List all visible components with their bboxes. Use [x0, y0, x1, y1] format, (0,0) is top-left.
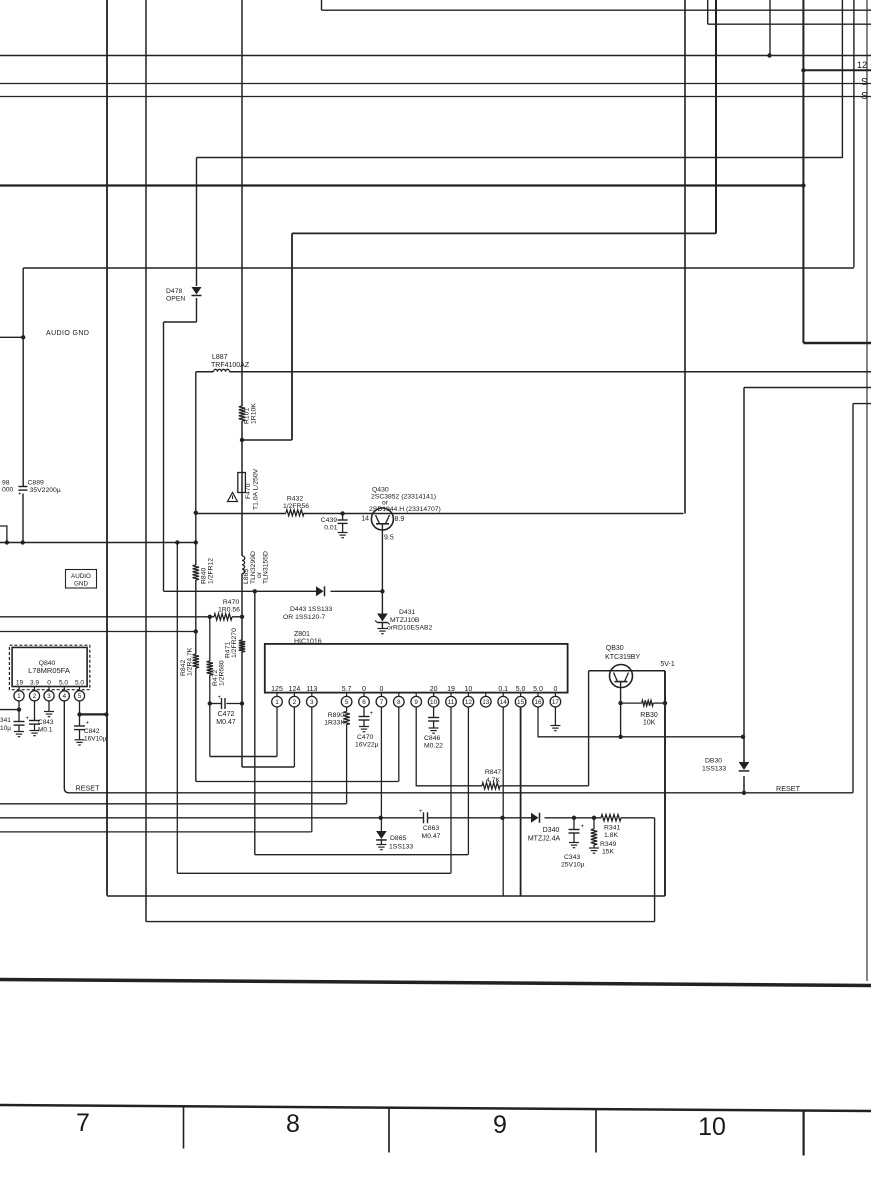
tick mark 4: [802, 1110, 804, 1156]
wire C863/D340 line y=817.8: [0, 817, 424, 819]
wire vertical x=177 to pin11 wire: [176, 543, 178, 874]
capacitor C842 with ground: [79, 714, 81, 726]
wire RB30 link y=703.3: [621, 702, 642, 704]
wire Q840 pin1 link y=709.6: [0, 709, 19, 711]
capacitor C863: [423, 812, 425, 823]
svg-text:S: S: [861, 77, 868, 88]
svg-text:0: 0: [362, 686, 366, 693]
svg-text:8: 8: [397, 699, 401, 706]
svg-text:0: 0: [47, 680, 51, 687]
wire vertical Q830 base riser x=588.6: [588, 671, 590, 786]
svg-text:R470: R470: [223, 599, 239, 606]
IC Z801 HIC1016 box: [265, 644, 568, 693]
wire horizontal L887 line y=371.8: [196, 371, 214, 373]
wire vertical box edge x=292: [291, 233, 293, 440]
wire horizontal thick y=343: [803, 342, 871, 344]
wire Q840 pin5 link y=714.4: [80, 713, 107, 715]
wire vertical x=744 DB30 branch: [743, 388, 745, 763]
svg-text:MTZJ2.4A: MTZJ2.4A: [528, 836, 561, 843]
wire RESET line y=792.8: [64, 701, 853, 793]
svg-text:Z801: Z801: [294, 631, 310, 638]
svg-text:1SS133: 1SS133: [389, 844, 413, 851]
svg-text:9: 9: [414, 699, 418, 706]
wire vertical D478 branch x=196.5: [196, 158, 198, 287]
wire vertical stub x=707.7: [707, 0, 709, 24]
svg-text:5.0: 5.0: [75, 680, 84, 687]
wire pin11 drop: [450, 707, 452, 873]
svg-text:+: +: [370, 711, 374, 717]
svg-text:15: 15: [517, 699, 525, 706]
svg-text:RESET: RESET: [776, 784, 801, 793]
svg-text:M0.47: M0.47: [422, 833, 441, 840]
diode D478 (OPEN): [192, 287, 202, 295]
wire pin5 line y=803.8: [0, 803, 346, 805]
svg-text:+: +: [581, 824, 585, 830]
wire horizontal 12V line y=70: [803, 69, 871, 71]
capacitor C470 with ground on pin6: [363, 707, 365, 717]
svg-text:QB30: QB30: [606, 645, 624, 652]
resistor R470: [214, 614, 232, 620]
svg-text:R341: R341: [604, 825, 620, 832]
svg-text:R349: R349: [600, 841, 616, 848]
wire vertical x=255 to pin12 wire: [254, 591, 256, 854]
svg-text:113: 113: [306, 686, 317, 693]
svg-text:8: 8: [286, 1110, 300, 1138]
svg-text:14: 14: [500, 699, 508, 706]
svg-text:C846: C846: [424, 735, 440, 742]
wire D443 line y=591.3: [164, 590, 317, 592]
svg-text:10: 10: [698, 1113, 726, 1141]
wire bottom line y=921.6: [146, 921, 655, 923]
svg-text:4: 4: [63, 693, 67, 700]
svg-text:HIC1016: HIC1016: [294, 639, 322, 646]
resistor R101: [239, 406, 245, 421]
svg-text:7: 7: [380, 699, 384, 706]
svg-text:M0.47: M0.47: [216, 719, 236, 726]
svg-text:TRF4100AZ: TRF4100AZ: [211, 362, 250, 369]
wire pin11 line y=873.3: [177, 872, 451, 874]
wire vertical x=163.5 D443 feed: [163, 322, 165, 591]
diode D340: [531, 813, 539, 823]
svg-text:98: 98: [2, 480, 10, 487]
wire pin12 line y=854.7: [255, 854, 468, 856]
capacitor C846 with ground on pin10: [433, 707, 435, 718]
warning triangle: [228, 493, 238, 502]
wire pin3 drop: [311, 707, 313, 832]
capacitor C889: [18, 486, 27, 488]
resistor R847: [482, 783, 500, 789]
wire Q830 base-collector line y=670.8: [589, 670, 665, 672]
wire vertical F470/L865 branch x=242: [241, 0, 243, 406]
svg-text:OPEN: OPEN: [166, 296, 185, 303]
svg-text:1R0.56: 1R0.56: [218, 607, 240, 614]
svg-text:L865: L865: [243, 569, 250, 584]
svg-text:0: 0: [553, 686, 557, 693]
svg-text:5: 5: [78, 693, 82, 700]
svg-text:3: 3: [310, 699, 314, 706]
wire R470 line y=616.8: [0, 616, 214, 618]
svg-text:L887: L887: [212, 354, 228, 361]
wire horizontal y=96.5: [0, 96, 871, 98]
svg-text:F470: F470: [245, 483, 252, 499]
svg-text:+: +: [218, 695, 222, 701]
resistor RB30: [642, 700, 654, 706]
diode D443: [316, 586, 324, 596]
wire pin8 drop: [398, 707, 400, 782]
svg-text:OR 1SS120-7: OR 1SS120-7: [283, 614, 326, 621]
svg-text:4.7K: 4.7K: [486, 777, 500, 784]
resistor R472: [207, 661, 213, 675]
wire horizontal box top y=233.4: [292, 232, 716, 234]
svg-text:R101: R101: [244, 408, 251, 424]
wire pin5 drop with resistor R890: [346, 707, 348, 712]
wire vertical x=842: [841, 0, 843, 158]
wire horizontal y=55: [0, 55, 871, 57]
wire horizontal y=268: [23, 267, 854, 269]
svg-text:10K: 10K: [643, 720, 656, 727]
wire Q830 emitter drop x=621: [620, 682, 622, 737]
svg-text:M0.1: M0.1: [38, 727, 53, 734]
wire vertical x=853 lower to RESET: [852, 404, 854, 793]
wire Q840 pin5 drop: [79, 701, 81, 715]
svg-text:1.8K: 1.8K: [604, 832, 618, 839]
wire horizontal y=157.5: [197, 157, 843, 159]
svg-text:AUDIO: AUDIO: [71, 573, 91, 580]
svg-text:341: 341: [0, 717, 11, 724]
svg-text:+: +: [18, 492, 22, 498]
capacitor C841 with ground on Q840 pin1: [18, 701, 20, 722]
svg-text:5.0: 5.0: [533, 686, 543, 693]
wire vertical bus left-1: [106, 0, 108, 896]
svg-text:S: S: [861, 91, 868, 102]
svg-text:L78MR05FA: L78MR05FA: [28, 666, 70, 675]
svg-text:C863: C863: [423, 825, 439, 832]
svg-text:0.01: 0.01: [324, 525, 337, 532]
svg-text:DB30: DB30: [705, 758, 722, 765]
transistor Q830: [610, 665, 633, 688]
svg-text:0: 0: [379, 686, 383, 693]
svg-text:2: 2: [33, 693, 37, 700]
svg-text:C439: C439: [321, 517, 337, 524]
svg-text:12: 12: [465, 699, 473, 706]
wire vertical x=196 L887 branch down to pin8 wire: [195, 372, 197, 565]
wire C472 link y=703.5: [210, 703, 222, 705]
wire pin2 link y=767: [242, 766, 294, 768]
svg-text:C842: C842: [84, 728, 100, 735]
wire Q430 collector drop x=383: [381, 524, 383, 592]
svg-text:RB30: RB30: [640, 712, 658, 719]
svg-text:13: 13: [482, 699, 490, 706]
svg-text:5.7: 5.7: [342, 686, 352, 693]
wire horizontal C889 line y=542.5: [0, 542, 196, 544]
wire vertical Q430 emitter riser x=685: [684, 0, 686, 514]
svg-text:19: 19: [16, 680, 24, 687]
svg-text:M0.22: M0.22: [424, 743, 443, 750]
tick mark 1: [183, 1106, 185, 1149]
svg-text:19: 19: [447, 686, 455, 693]
wire vertical loop x=654.6: [654, 818, 656, 922]
svg-text:C889: C889: [28, 480, 44, 487]
wire right page edge x=867: [866, 0, 868, 981]
svg-text:2SD1944.H (23314707): 2SD1944.H (23314707): [369, 506, 441, 513]
title block border line: [0, 1105, 871, 1111]
svg-text:D443 1SS133: D443 1SS133: [290, 606, 333, 613]
svg-text:1/2FR12: 1/2FR12: [208, 558, 215, 584]
svg-text:7: 7: [76, 1109, 90, 1137]
wire horizontal thick y=185.5: [0, 184, 803, 186]
svg-text:10: 10: [465, 686, 473, 693]
svg-text:D865: D865: [390, 835, 406, 842]
wire vertical C889 branch x=22.5: [22, 268, 24, 486]
svg-text:+: +: [86, 721, 90, 727]
svg-text:124: 124: [289, 686, 301, 693]
resistor R471: [239, 640, 245, 652]
svg-text:R847: R847: [485, 769, 501, 776]
wire pin16 drop: [537, 707, 539, 737]
svg-text:9.5: 9.5: [384, 535, 394, 542]
wire D478 branch corner y=322: [164, 321, 197, 323]
svg-text:1: 1: [17, 693, 21, 700]
wire pin17 drop with ground: [554, 707, 556, 726]
svg-text:1R10K: 1R10K: [251, 403, 258, 424]
svg-text:125: 125: [271, 686, 283, 693]
resistor R341: [601, 815, 621, 821]
ground on Q840 pin3: [48, 701, 50, 712]
diode D865 with ground: [376, 831, 387, 839]
wire horizontal stub y=337: [0, 336, 23, 338]
svg-text:12: 12: [857, 60, 867, 70]
tick mark 3: [595, 1109, 597, 1153]
wire vertical stub x=321 to top: [321, 0, 323, 10]
svg-text:1/2R680: 1/2R680: [219, 660, 226, 686]
svg-text:9: 9: [493, 1111, 507, 1139]
wire horizontal y=10: [322, 9, 871, 11]
svg-text:5.0: 5.0: [516, 686, 526, 693]
svg-text:TLN3299D: TLN3299D: [250, 551, 257, 584]
svg-text:5.0: 5.0: [59, 680, 68, 687]
svg-text:GND: GND: [74, 581, 88, 588]
wire pin8 link y=781.5: [196, 781, 399, 783]
resistor R432: [286, 510, 304, 516]
wire pin15 drop: [520, 707, 522, 896]
svg-text:16V10µ: 16V10µ: [84, 736, 107, 743]
svg-text:2SC3852 (23314141): 2SC3852 (23314141): [371, 493, 436, 500]
wire hook at left edge: [0, 526, 7, 543]
svg-text:0.1: 0.1: [498, 686, 508, 693]
wire R842 line y=631.5: [0, 631, 196, 633]
svg-text:1SS133: 1SS133: [702, 766, 726, 773]
svg-text:2: 2: [293, 699, 297, 706]
resistor R890: [343, 712, 349, 725]
svg-text:1: 1: [275, 699, 279, 706]
svg-text:17: 17: [552, 699, 560, 706]
wire R432 base line y=513.5: [196, 513, 286, 515]
svg-text:8.9: 8.9: [395, 516, 405, 523]
wire pin16 line y=736.8: [538, 736, 743, 738]
svg-text:D431: D431: [399, 609, 415, 616]
wire pin3 line y=831.9: [0, 831, 312, 833]
transistor Q430: [371, 508, 393, 530]
IC Q840 L78MR05FA dashed box: [9, 645, 89, 690]
svg-text:25V10µ: 25V10µ: [561, 862, 585, 869]
svg-text:20: 20: [430, 686, 438, 693]
svg-text:16V22µ: 16V22µ: [355, 742, 379, 749]
wire pin2 drop: [293, 707, 295, 767]
wire vertical 5V-1 x=665 Q830 collector: [664, 671, 666, 896]
svg-text:orRD10ESAB2: orRD10ESAB2: [387, 625, 433, 632]
wire horizontal y=83.5: [0, 83, 871, 85]
wire vertical x=210 C472 branch: [209, 617, 211, 661]
wire horizontal y=403.6: [853, 403, 871, 405]
resistor R840: [193, 565, 199, 580]
wire vertical x=770 ending on y=55 line: [769, 0, 771, 56]
svg-text:D478: D478: [166, 288, 182, 295]
wire vertical x=803 thick: [802, 0, 804, 343]
capacitor C472: [221, 698, 223, 709]
resistor R842: [193, 654, 199, 668]
svg-text:MTZJ10B: MTZJ10B: [390, 617, 420, 624]
svg-text:3.9: 3.9: [30, 680, 39, 687]
svg-text:3: 3: [47, 693, 51, 700]
wire horizontal y=387.5: [744, 387, 871, 389]
wire pin1 link y=756.5: [210, 756, 277, 758]
diode D431 zener with ground: [381, 592, 383, 614]
svg-text:R840: R840: [201, 568, 208, 584]
svg-text:+: +: [26, 716, 30, 722]
wire horizontal y=24: [708, 23, 871, 25]
inductor L865: [242, 556, 245, 574]
svg-text:C843: C843: [38, 719, 54, 726]
node AUDIO GND boxed label: [66, 570, 97, 589]
svg-text:1/2R4.7K: 1/2R4.7K: [187, 647, 194, 676]
svg-text:R432: R432: [287, 496, 303, 503]
capacitor C439 with ground: [342, 514, 344, 521]
svg-text:1/2FR270: 1/2FR270: [231, 628, 238, 658]
svg-text:15K: 15K: [602, 849, 615, 856]
IC pin circles 1-17: [276, 693, 278, 697]
svg-text:16: 16: [534, 699, 542, 706]
svg-text:14: 14: [361, 516, 369, 523]
wire horizontal y=440 link: [242, 439, 292, 441]
wire pin9-R847 line y=785.8: [416, 785, 482, 787]
svg-text:RESET: RESET: [76, 784, 101, 793]
svg-text:11: 11: [448, 699, 455, 706]
thick separator line: [0, 980, 871, 986]
svg-text:6: 6: [362, 699, 366, 706]
wire pin12 drop: [467, 707, 469, 855]
Q840 pin circles: [18, 687, 20, 691]
svg-text:10µ: 10µ: [0, 725, 11, 732]
svg-text:KTC319BY: KTC319BY: [605, 654, 640, 661]
IC Q840 inner box: [12, 647, 87, 686]
resistor R349 with ground: [593, 818, 595, 829]
svg-text:1R33K: 1R33K: [324, 720, 345, 727]
svg-text:C472: C472: [218, 711, 235, 718]
fuse F470: [238, 473, 246, 493]
wire pin7 drop: [380, 707, 382, 831]
svg-text:5: 5: [345, 699, 349, 706]
wire vertical bus left-2: [145, 0, 147, 922]
diode DB30: [739, 762, 750, 770]
svg-text:+: +: [419, 809, 423, 815]
wire pin9 drop: [415, 707, 417, 786]
svg-text:T1.0A L/250V: T1.0A L/250V: [253, 468, 260, 510]
svg-text:5V-1: 5V-1: [660, 661, 675, 668]
svg-text:D340: D340: [543, 827, 560, 834]
junction dots: [17, 707, 21, 711]
tick mark 2: [388, 1107, 390, 1152]
inductor L887: [214, 369, 230, 372]
wire vertical x=716 to box corner: [715, 0, 717, 233]
svg-text:C470: C470: [357, 734, 373, 741]
svg-text:R890: R890: [328, 712, 344, 719]
svg-text:AUDIO GND: AUDIO GND: [46, 330, 89, 337]
svg-text:TLN3155D: TLN3155D: [263, 551, 270, 584]
capacitor C343 with ground: [573, 818, 575, 830]
svg-text:C343: C343: [564, 854, 580, 861]
capacitor C843 with ground on Q840 pin2: [34, 701, 36, 721]
wire pin14 drop: [502, 707, 504, 896]
svg-text:1/2FR56: 1/2FR56: [283, 503, 309, 510]
wire vertical x=854 upper: [853, 0, 855, 267]
svg-text:000: 000: [2, 487, 14, 494]
wire 5V bottom line y=896: [107, 895, 665, 897]
svg-text:10: 10: [430, 699, 438, 706]
wire pin1 drop: [276, 707, 278, 757]
svg-text:35V2200µ: 35V2200µ: [30, 487, 61, 494]
